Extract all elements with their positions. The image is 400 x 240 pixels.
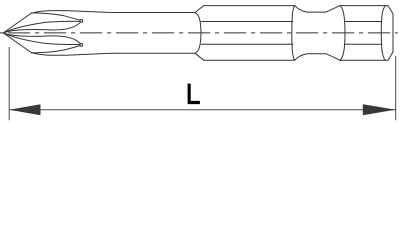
hex2 top silhouette — [340, 5, 388, 7]
groove bottom profile — [295, 54, 340, 61]
arrowhead left — [9, 104, 40, 115]
groove left boundary arc top — [292, 6, 295, 33]
end chamfer top — [388, 6, 393, 14]
hex2 bottom silhouette — [340, 59, 388, 61]
end face — [392, 14, 394, 52]
shaft top line — [118, 12, 195, 14]
phillips tip lower half (mirror) — [3, 33, 118, 55]
hex left end boundary arc — [195, 13, 201, 54]
tip cone silhouette — [3, 11, 118, 33]
shaft bottom line — [118, 52, 195, 54]
groove top profile — [295, 6, 340, 13]
wing tip circle — [80, 20, 83, 23]
wing outer flute edge — [32, 13, 81, 20]
shaft to hex chamfer top — [195, 6, 204, 13]
hex2 left boundary arc bottom — [340, 33, 345, 60]
wing inner flute edge — [3, 22, 80, 33]
hex1 top silhouette — [204, 5, 295, 7]
extension line right — [395, 56, 397, 120]
hex2 right end boundary arc — [381, 6, 385, 61]
end chamfer bottom — [388, 52, 393, 60]
centerline dash-dot — [0, 32, 398, 34]
shaft to hex chamfer bottom — [195, 53, 204, 60]
dimension line — [9, 109, 396, 111]
hex2 left boundary arc top — [340, 6, 345, 33]
hex1 inner bottom edge — [201, 43, 292, 45]
hex1 bottom silhouette — [204, 59, 295, 61]
groove left boundary arc bottom — [292, 33, 295, 60]
arrowhead right — [363, 104, 396, 115]
hex2 inner top edge — [345, 21, 382, 23]
phillips tip upper half — [3, 11, 118, 33]
wing middle flute edge — [3, 21, 80, 33]
label L — [188, 84, 200, 105]
hex2 inner bottom edge — [345, 43, 382, 45]
hex1 inner top edge — [201, 21, 292, 23]
extension line left — [8, 47, 10, 120]
